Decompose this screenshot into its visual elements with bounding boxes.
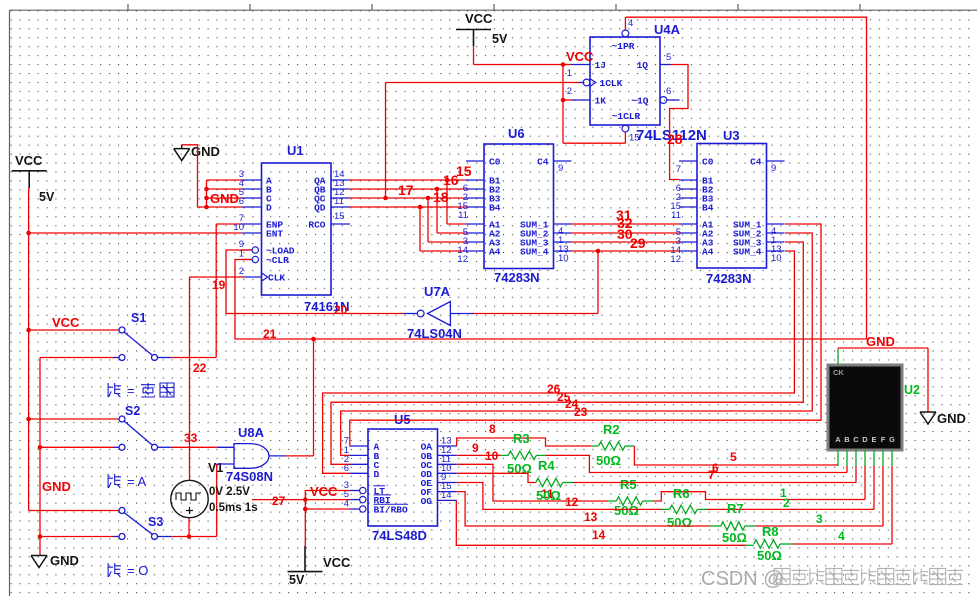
wire R6 to segment E (net 2) <box>707 508 874 510</box>
svg-text:VCC: VCC <box>52 315 80 330</box>
svg-text:~1PR: ~1PR <box>612 41 635 52</box>
svg-text:VCC: VCC <box>566 49 594 64</box>
node U1 C gnd <box>204 196 209 201</box>
U3 left pins <box>679 160 697 162</box>
wire R7 to segment F (net 3) <box>756 525 883 527</box>
svg-text:GND: GND <box>42 479 71 494</box>
svg-text:V1: V1 <box>208 461 223 475</box>
resistor R4 <box>536 478 563 486</box>
node U8A output junction <box>311 337 316 342</box>
U5 left pins A-D <box>350 445 368 447</box>
svg-text:B: B <box>844 435 850 444</box>
svg-text:1: 1 <box>567 68 572 79</box>
svg-text:29: 29 <box>630 235 646 251</box>
svg-text:A4: A4 <box>489 247 501 258</box>
wire segment G drop <box>891 466 893 544</box>
U8A output stub <box>269 455 286 457</box>
node S2 VCC junction <box>26 417 31 422</box>
wire OB to R3 (net 9) <box>457 454 501 456</box>
svg-text:A4: A4 <box>702 247 714 258</box>
svg-text:C0: C0 <box>702 157 714 168</box>
U6 left pins <box>466 160 484 162</box>
wire R3 to segment B (net 6) <box>546 455 847 472</box>
svg-text:D: D <box>862 435 868 444</box>
svg-text:GND: GND <box>866 334 895 349</box>
switch S3 <box>119 508 125 514</box>
svg-text:CSDN @: CSDN @ <box>701 568 784 590</box>
U6 right pins <box>554 160 572 162</box>
svg-text:50Ω: 50Ω <box>596 453 621 468</box>
label key=O (switch S3 caption) <box>108 563 121 577</box>
ground rail left <box>39 358 41 556</box>
resistor R2 <box>591 445 599 447</box>
svg-text:50Ω: 50Ω <box>722 530 747 545</box>
wire VCC-top to 1J <box>473 46 475 65</box>
svg-text:1Q: 1Q <box>637 60 649 71</box>
svg-text:SUM_4: SUM_4 <box>733 247 762 258</box>
wire U6 SUM2 to U3 A2 <box>572 232 680 234</box>
wire segment D drop <box>864 466 866 500</box>
svg-text:D: D <box>374 469 380 480</box>
U1 pin RCO <box>331 223 350 225</box>
svg-text:U7A: U7A <box>424 284 451 299</box>
svg-text:22: 22 <box>193 361 207 375</box>
svg-text:5V: 5V <box>39 190 55 204</box>
wire S3 lower <box>40 536 113 538</box>
U4A pin ~1Q <box>660 97 667 104</box>
svg-text:17: 17 <box>398 182 414 198</box>
wire ~1PR to GND-net riser (net 21) <box>625 17 866 339</box>
svg-text:U8A: U8A <box>238 425 265 440</box>
svg-text:10: 10 <box>485 449 499 463</box>
wire S1 common to ENP <box>171 357 216 359</box>
svg-text:A: A <box>835 435 841 444</box>
svg-text:50Ω: 50Ω <box>667 515 692 530</box>
svg-text:0V 2.5V: 0V 2.5V <box>209 486 250 498</box>
svg-text:S1: S1 <box>131 311 146 325</box>
node U7A-SUM4 junction <box>596 249 601 254</box>
svg-text:11: 11 <box>671 210 681 221</box>
svg-text:GND: GND <box>210 191 239 206</box>
svg-text:5V: 5V <box>492 32 508 46</box>
svg-text:C0: C0 <box>489 157 501 168</box>
svg-text:U1: U1 <box>287 143 304 158</box>
U8A input stubs <box>217 446 234 448</box>
svg-text:= A: = A <box>127 474 146 489</box>
wire S2 common to U8A input (net 33) <box>171 446 217 448</box>
svg-text:= O: = O <box>127 563 148 578</box>
svg-text:U4A: U4A <box>654 22 681 37</box>
wire U1 inputs to GND <box>182 145 207 207</box>
svg-text:R8: R8 <box>762 524 779 539</box>
svg-text:5V: 5V <box>289 573 305 587</box>
wire segment E drop <box>873 466 875 509</box>
wire QC to U6.B3/A3 (net 17) <box>350 197 466 199</box>
wire U7A output to SUM_4 <box>474 313 598 315</box>
svg-text:R5: R5 <box>620 477 637 492</box>
svg-text:1K: 1K <box>595 96 607 107</box>
wire segment F drop <box>882 466 884 526</box>
wire QC to U4A 1CLK <box>385 83 387 199</box>
wire OG to R8 <box>456 500 746 545</box>
wire U3 SUM_3 to U5.C (net 25) <box>331 242 803 464</box>
svg-text:12: 12 <box>670 254 681 265</box>
svg-text:6: 6 <box>666 86 671 97</box>
svg-text:U2: U2 <box>904 383 920 397</box>
wire ENT net <box>29 232 242 234</box>
svg-text:23: 23 <box>574 405 588 419</box>
svg-text:9: 9 <box>771 163 776 174</box>
svg-text:R6: R6 <box>673 486 690 501</box>
svg-text:R7: R7 <box>727 501 744 516</box>
node U1 D gnd <box>204 205 209 210</box>
svg-text:CLK: CLK <box>268 273 285 284</box>
node U1 B gnd <box>204 187 209 192</box>
wire S3 upper <box>29 510 119 512</box>
power symbol VCC top-left <box>12 170 47 172</box>
decoder U5 74LS48D body <box>368 429 438 526</box>
svg-text:15: 15 <box>334 211 345 222</box>
svg-text:R2: R2 <box>603 422 620 437</box>
svg-text:2: 2 <box>567 86 572 97</box>
svg-text:2: 2 <box>783 496 790 510</box>
U4A pin 1CLK <box>583 79 590 86</box>
svg-text:7: 7 <box>676 164 681 175</box>
U1 left pins A-D ENP ENT <box>241 179 261 181</box>
wire R8 to segment G (net 4) <box>793 543 893 545</box>
U5 pin RBI <box>350 499 360 501</box>
svg-text:13: 13 <box>584 510 598 524</box>
U3 right pins <box>767 160 785 162</box>
svg-text:2: 2 <box>239 266 244 277</box>
wire U8A lower input riser <box>216 464 218 537</box>
resistor R8 <box>746 544 754 546</box>
wire VCC to U5 LT/RBI/BI (net 27) <box>305 491 350 547</box>
svg-text:20: 20 <box>334 303 348 317</box>
U5 pin LT <box>350 490 360 492</box>
svg-text:27: 27 <box>272 494 286 508</box>
svg-text:ENT: ENT <box>266 229 283 240</box>
node V1 bottom junction <box>187 534 192 539</box>
wire S1 lower <box>40 357 113 359</box>
svg-text:SUM_4: SUM_4 <box>520 247 549 258</box>
U5 pin BI/RBO <box>350 508 360 510</box>
node ENT junction <box>26 231 31 236</box>
svg-text:1CLK: 1CLK <box>600 78 623 89</box>
svg-text:D: D <box>266 203 272 214</box>
svg-text:VCC: VCC <box>15 153 43 168</box>
node S1 VCC junction <box>26 328 31 333</box>
adder U3 74283N body <box>697 144 767 269</box>
svg-text:1J: 1J <box>595 60 606 71</box>
svg-text:QD: QD <box>314 203 326 214</box>
svg-text:74283N: 74283N <box>706 271 752 286</box>
svg-text:GND: GND <box>937 411 966 426</box>
svg-text:RCO: RCO <box>308 220 325 231</box>
svg-text:R4: R4 <box>538 458 555 473</box>
wire S2 lower <box>40 446 113 448</box>
wire segment B drop <box>846 466 848 473</box>
wire QB to U6.B2/A2 (net 16) <box>350 188 466 190</box>
wire S3 common (to V1 and U8A) <box>171 536 217 538</box>
svg-text:~1CLR: ~1CLR <box>612 111 641 122</box>
svg-text:18: 18 <box>433 189 449 205</box>
flip-flop U4A body <box>590 37 660 125</box>
svg-text:9: 9 <box>558 163 563 174</box>
svg-text:12: 12 <box>457 254 468 265</box>
node S3 GND junction <box>38 534 43 539</box>
svg-text:F: F <box>881 435 886 444</box>
seven-segment display U2 <box>828 365 902 450</box>
svg-text:11: 11 <box>334 196 344 207</box>
wire U6 SUM1 to U3 A1 (net 31) <box>572 223 680 225</box>
svg-text:C4: C4 <box>750 157 762 168</box>
U4A pin ~1PR top <box>622 30 629 37</box>
wire U4A 1Q to U3.B1 <box>670 65 688 180</box>
svg-text:14: 14 <box>592 528 606 542</box>
svg-text:~1Q: ~1Q <box>631 96 648 107</box>
svg-text:11: 11 <box>458 210 468 221</box>
svg-text:50Ω: 50Ω <box>536 488 561 503</box>
resistor R6 <box>661 508 669 510</box>
svg-text:GND: GND <box>50 553 79 568</box>
wire OA to R2 (net 8) <box>457 438 591 446</box>
power symbol VCC bottom-center <box>288 571 323 573</box>
svg-text:GND: GND <box>191 144 220 159</box>
svg-text:19: 19 <box>212 278 226 292</box>
U2 CK pin <box>837 348 839 365</box>
svg-text:9: 9 <box>472 441 479 455</box>
svg-text:15: 15 <box>629 133 640 144</box>
svg-text:VCC: VCC <box>465 11 493 26</box>
resistor R3 <box>501 454 508 456</box>
svg-text:U5: U5 <box>394 412 411 427</box>
label key=space (switch S1 caption) <box>108 383 121 397</box>
label key=A (switch S2 caption) <box>108 474 121 488</box>
wire ~LOAD to U7A input <box>226 250 404 314</box>
svg-text:50Ω: 50Ω <box>757 548 782 563</box>
svg-text:74S08N: 74S08N <box>226 469 273 484</box>
svg-text:21: 21 <box>263 327 277 341</box>
svg-text:=: = <box>127 383 135 398</box>
svg-text:74283N: 74283N <box>494 270 540 285</box>
svg-text:3: 3 <box>816 512 823 526</box>
svg-text:7: 7 <box>708 468 715 482</box>
svg-text:U6: U6 <box>508 126 525 141</box>
svg-text:10: 10 <box>771 253 782 264</box>
svg-text:E: E <box>871 435 876 444</box>
wire U3 SUM_4 to U5.D (net 26) <box>323 251 795 473</box>
sheet border <box>10 9 977 11</box>
svg-text:33: 33 <box>184 431 198 445</box>
U4A pin ~1CLR bottom <box>622 125 629 132</box>
wire OC to R5 (net 10) <box>457 464 608 501</box>
wire VCC to U4A 1J 1K ~1CLR <box>563 64 571 66</box>
wire U3 SUM_1 to U5.A (net 23) <box>350 224 821 446</box>
wire VCC rail left <box>28 188 30 510</box>
wire R4 to segment C (net 7) <box>573 482 856 484</box>
ground GND right <box>920 411 936 413</box>
svg-text:10: 10 <box>233 222 244 233</box>
svg-text:14: 14 <box>441 490 452 501</box>
resistor R5 <box>608 500 616 502</box>
svg-text:C4: C4 <box>537 157 549 168</box>
wire CK to GND right <box>838 347 928 349</box>
wire S2 upper <box>29 418 119 420</box>
svg-text:8: 8 <box>489 422 496 436</box>
svg-text:50Ω: 50Ω <box>614 503 639 518</box>
svg-text:S3: S3 <box>148 515 163 529</box>
svg-text:CK: CK <box>833 368 844 377</box>
wire OF to R7 (net 14) <box>457 492 710 526</box>
wire QD to U6.B4/A4 (net 18) <box>350 206 466 208</box>
ground symbol near U1 <box>174 148 190 150</box>
wire V1 top to CLK (net 22) <box>189 277 191 480</box>
counter U1 74161N body <box>262 163 332 295</box>
wire V1 bottom <box>188 518 190 537</box>
wire ~CLR net 21 long <box>235 260 867 340</box>
svg-text:4: 4 <box>838 529 845 543</box>
wire U6 SUM4 to U3 A4 (net 29) <box>572 250 680 252</box>
switch S2 <box>119 416 125 422</box>
ground GND bottom-left <box>31 555 47 557</box>
wire U3 SUM_2 to U5.B (net 24) <box>341 233 813 455</box>
U4A pin 1K <box>571 99 590 101</box>
U4A pin 1Q <box>660 64 671 66</box>
U1 pin ~LOAD <box>241 249 252 251</box>
wire OD to R4 (net 11) <box>457 473 536 482</box>
svg-text:5: 5 <box>730 450 737 464</box>
svg-text:OG: OG <box>421 496 433 507</box>
svg-text:74LS48D: 74LS48D <box>372 528 427 543</box>
adder U6 74283N body <box>484 144 554 269</box>
U5 right pins OA-OG <box>438 445 457 447</box>
svg-text:B4: B4 <box>489 203 501 214</box>
U1 pin ~CLR <box>241 259 252 261</box>
svg-text:VCC: VCC <box>310 484 338 499</box>
svg-text:4: 4 <box>628 18 633 29</box>
svg-text:10: 10 <box>558 253 569 264</box>
svg-text:VCC: VCC <box>323 555 351 570</box>
wire R2 to segment A (net 5) <box>634 446 838 465</box>
wire S1 upper <box>29 329 119 331</box>
power symbol VCC top-center <box>456 29 491 31</box>
svg-text:12: 12 <box>565 495 579 509</box>
wire U8A output to net21 <box>286 455 314 457</box>
inverter U7A 74LS04N <box>428 302 451 326</box>
AND gate U8A 74S08N <box>234 444 269 469</box>
svg-text:~CLR: ~CLR <box>266 255 289 266</box>
svg-text:0.5ms 1s: 0.5ms 1s <box>209 502 258 514</box>
wire R5 to segment D (net 1) <box>653 492 865 501</box>
wire U6 SUM3 to U3 A3 <box>572 241 680 243</box>
svg-text:G: G <box>889 435 895 444</box>
svg-text:R3: R3 <box>513 431 530 446</box>
U2 segment pins <box>837 450 839 466</box>
wire QA to U6.B1/A1 (net 15) <box>350 179 466 181</box>
wire segment C drop <box>855 466 857 483</box>
switch S1 <box>119 327 125 333</box>
U4A pin 1J <box>571 64 590 66</box>
svg-text:S2: S2 <box>125 404 140 418</box>
svg-text:B4: B4 <box>702 203 714 214</box>
svg-text:5: 5 <box>666 52 671 63</box>
node S2 GND junction <box>38 445 43 450</box>
svg-text:BI/RBO: BI/RBO <box>374 505 409 516</box>
svg-text:16: 16 <box>443 172 459 188</box>
clock source V1 <box>171 480 208 517</box>
wire OE to R6 (net 13) <box>457 483 662 510</box>
resistor R7 <box>710 525 721 527</box>
svg-text:C: C <box>853 435 859 444</box>
U1 pin CLK <box>243 276 262 278</box>
U1 right pins QA-QD <box>331 179 350 181</box>
svg-text:U3: U3 <box>723 128 740 143</box>
